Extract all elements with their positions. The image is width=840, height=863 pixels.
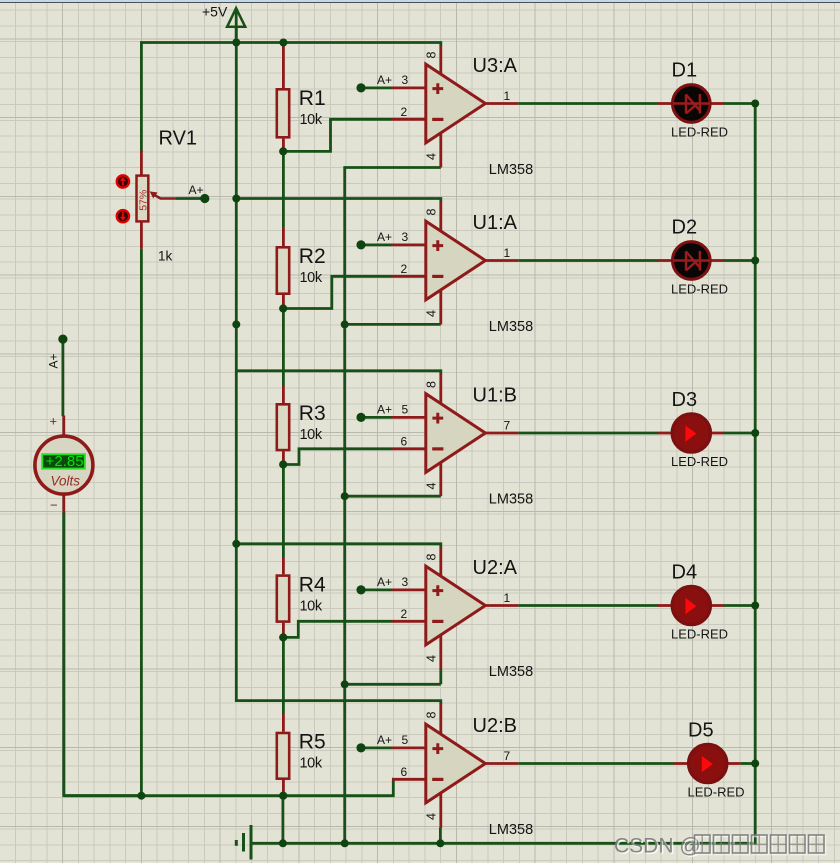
svg-text:LED-RED: LED-RED bbox=[688, 785, 745, 800]
svg-text:2: 2 bbox=[401, 262, 408, 276]
svg-text:D3: D3 bbox=[672, 389, 698, 411]
svg-text:LM358: LM358 bbox=[489, 822, 533, 838]
svg-text:Volts: Volts bbox=[51, 474, 81, 489]
svg-text:−: − bbox=[50, 498, 58, 513]
svg-text:2: 2 bbox=[401, 607, 408, 621]
svg-text:A+: A+ bbox=[189, 183, 204, 197]
svg-text:LED-RED: LED-RED bbox=[671, 454, 728, 469]
svg-text:5: 5 bbox=[402, 733, 409, 747]
svg-text:8: 8 bbox=[425, 209, 439, 216]
svg-text:7: 7 bbox=[504, 749, 511, 763]
svg-text:LED-RED: LED-RED bbox=[671, 282, 728, 297]
svg-text:8: 8 bbox=[425, 712, 439, 719]
svg-text:4: 4 bbox=[425, 310, 439, 317]
svg-text:A+: A+ bbox=[377, 733, 392, 747]
svg-text:A+: A+ bbox=[47, 353, 61, 368]
svg-text:U1:A: U1:A bbox=[473, 212, 518, 234]
svg-text:R3: R3 bbox=[299, 402, 326, 425]
svg-text:D2: D2 bbox=[672, 217, 698, 239]
svg-text:U1:B: U1:B bbox=[473, 385, 517, 407]
svg-text:10k: 10k bbox=[300, 756, 323, 772]
svg-text:5: 5 bbox=[402, 403, 409, 417]
svg-text:4: 4 bbox=[425, 153, 439, 160]
svg-text:R2: R2 bbox=[299, 245, 326, 268]
svg-text:CSDN @: CSDN @ bbox=[614, 835, 701, 858]
svg-text:4: 4 bbox=[425, 483, 439, 490]
svg-text:A+: A+ bbox=[377, 230, 392, 244]
svg-text:1: 1 bbox=[504, 246, 511, 260]
svg-text:LM358: LM358 bbox=[489, 491, 533, 507]
svg-text:1: 1 bbox=[504, 591, 511, 605]
svg-text:R1: R1 bbox=[299, 87, 326, 110]
svg-text:U2:B: U2:B bbox=[473, 715, 517, 737]
svg-text:3: 3 bbox=[402, 73, 409, 87]
svg-text:LM358: LM358 bbox=[489, 162, 533, 178]
svg-text:2: 2 bbox=[401, 105, 408, 119]
svg-text:4: 4 bbox=[425, 813, 439, 820]
svg-text:U3:A: U3:A bbox=[473, 55, 518, 77]
svg-text:10k: 10k bbox=[300, 427, 323, 443]
svg-text:A+: A+ bbox=[377, 575, 392, 589]
svg-text:A+: A+ bbox=[377, 73, 392, 87]
svg-text:3: 3 bbox=[402, 575, 409, 589]
svg-text:6: 6 bbox=[401, 435, 408, 449]
svg-text:D1: D1 bbox=[672, 60, 698, 82]
svg-text:+5V: +5V bbox=[202, 4, 228, 20]
svg-text:6: 6 bbox=[401, 765, 408, 779]
svg-text:RV1: RV1 bbox=[159, 128, 198, 150]
svg-text:7: 7 bbox=[504, 419, 511, 433]
svg-text:3: 3 bbox=[402, 230, 409, 244]
svg-text:U2:A: U2:A bbox=[473, 557, 518, 579]
svg-text:1k: 1k bbox=[158, 249, 173, 264]
svg-text:R5: R5 bbox=[299, 731, 326, 754]
svg-text:R4: R4 bbox=[299, 573, 326, 596]
svg-text:+: + bbox=[50, 414, 58, 429]
svg-text:LED-RED: LED-RED bbox=[671, 627, 728, 642]
svg-text:D5: D5 bbox=[688, 720, 714, 742]
svg-text:10k: 10k bbox=[300, 270, 323, 286]
svg-text:10k: 10k bbox=[300, 598, 323, 614]
svg-text:10k: 10k bbox=[300, 112, 323, 128]
svg-text:D4: D4 bbox=[672, 562, 698, 584]
svg-text:57%: 57% bbox=[137, 190, 149, 211]
svg-text:8: 8 bbox=[425, 381, 439, 388]
svg-text:LM358: LM358 bbox=[489, 664, 533, 680]
svg-text:LED-RED: LED-RED bbox=[671, 125, 728, 140]
svg-text:1: 1 bbox=[504, 89, 511, 103]
svg-text:8: 8 bbox=[425, 554, 439, 561]
svg-text:+2.85: +2.85 bbox=[46, 453, 84, 470]
svg-text:LM358: LM358 bbox=[489, 319, 533, 335]
svg-text:8: 8 bbox=[425, 52, 439, 59]
svg-text:A+: A+ bbox=[377, 403, 392, 417]
svg-text:4: 4 bbox=[425, 655, 439, 662]
